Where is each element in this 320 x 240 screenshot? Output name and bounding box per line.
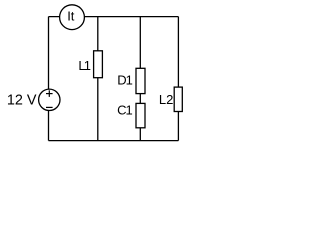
wire left source branch (48, 17, 50, 141)
svg-text:L2: L2 (159, 92, 173, 107)
svg-text:C1: C1 (117, 102, 132, 117)
diode D1 (136, 68, 145, 93)
wire D1 C1 branch (139, 17, 141, 141)
inductor L1 (94, 51, 103, 78)
inductor L2 (174, 87, 182, 111)
svg-text:D1: D1 (117, 73, 132, 88)
wire bottom return node (49, 140, 179, 142)
ammeter It (60, 5, 85, 30)
wire right L2 branch (177, 17, 179, 141)
svg-text:12 V: 12 V (7, 93, 37, 109)
wire L1 branch (97, 17, 99, 141)
wire top node (source plus to all branches) (49, 16, 179, 18)
svg-text:It: It (67, 9, 75, 24)
voltage source V1 (39, 89, 60, 110)
svg-text:L1: L1 (78, 58, 90, 73)
capacitor C1 (136, 103, 145, 127)
